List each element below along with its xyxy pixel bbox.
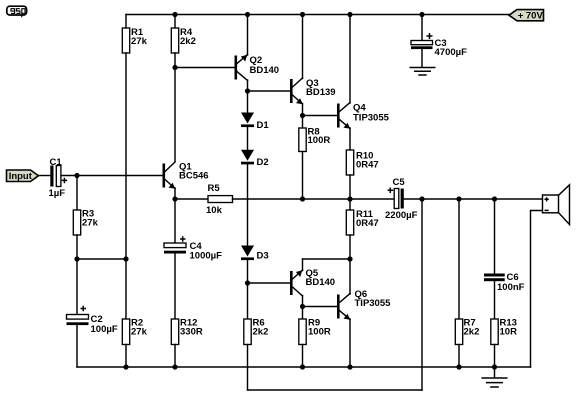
wire feedback riser (421, 199, 423, 390)
svg-text:R5: R5 (208, 183, 221, 194)
resistor R9 (299, 318, 331, 345)
wire R1 to R2 column (125, 53, 127, 319)
svg-text:27k: 27k (82, 218, 99, 229)
wire Q6 emitter (349, 319, 351, 367)
wire R7 bottom lead (458, 345, 460, 368)
wire mid rail C5 to speaker (404, 198, 543, 200)
wire Q2 emitter to top rail (247, 15, 249, 56)
node dot bottom Q6 emitter (347, 364, 352, 369)
wire feedback bottom run (248, 389, 423, 391)
capacitor C4 (164, 236, 222, 261)
svg-text:BC546: BC546 (179, 171, 209, 182)
wire R4 top lead (174, 15, 176, 29)
ground under C3 (410, 68, 436, 76)
node dot Q5 collector / R9 / Q6 base (300, 304, 305, 309)
resistor R3 (73, 209, 98, 236)
wire ground lead (494, 367, 496, 378)
wire Q5 collector (302, 296, 304, 307)
node dot top rail Q4 (347, 12, 352, 17)
wire C4 to R12 (174, 254, 176, 320)
resistor R4 (171, 27, 196, 53)
wire R12 bottom lead (174, 345, 176, 368)
wire Q5 base (248, 282, 291, 284)
node dot bottom R9 (300, 364, 305, 369)
svg-text:27k: 27k (131, 36, 148, 47)
node dot top rail Q2 (245, 12, 250, 17)
wire Q6 base (303, 306, 338, 308)
diode D1 (241, 113, 269, 132)
svg-text:D1: D1 (257, 120, 270, 131)
node dot Q1 emitter / R5 / C4 (172, 196, 177, 201)
wire C2 top lead (76, 259, 78, 315)
resistor R11 (346, 209, 378, 235)
node dot C6 tap (492, 196, 497, 201)
wire R4 bottom to Q1 collector (174, 53, 176, 162)
svg-text:BD140: BD140 (306, 277, 336, 288)
wire feedback link (77, 258, 126, 260)
svg-text:2200µF: 2200µF (385, 210, 418, 221)
resistor R2 (122, 318, 147, 345)
wire R7 top lead (458, 199, 460, 319)
svg-text:2k2: 2k2 (180, 36, 196, 47)
svg-text:2k2: 2k2 (464, 327, 480, 338)
wire Q3 base (248, 90, 291, 92)
svg-text:100R: 100R (308, 327, 331, 338)
wire R10 bottom lead (349, 175, 351, 199)
wire Q4 emitter to R10 (349, 128, 351, 150)
node dot mid rail R10/R11 (347, 196, 352, 201)
wire D1 top lead (247, 91, 249, 113)
ground bottom right (482, 378, 508, 387)
svg-text:10k: 10k (206, 205, 223, 216)
capacitor C2 (67, 306, 118, 335)
wire Q4 base (303, 115, 338, 117)
node dot divider tap (123, 256, 128, 261)
node dot top rail R4 (172, 12, 177, 17)
resistor R8 (299, 127, 331, 152)
diode D3 (241, 246, 269, 262)
wire R2 bottom lead (125, 345, 127, 368)
capacitor C3 (411, 33, 467, 58)
svg-text:BD140: BD140 (250, 65, 280, 76)
node dot R11 / Q5 emitter / Q6 collector (347, 256, 352, 261)
wire Q5 emitter link (303, 258, 351, 260)
svg-text:10R: 10R (500, 327, 518, 338)
wire C6 top lead (494, 199, 496, 274)
svg-text:C1: C1 (50, 157, 63, 168)
wire Q5 emitter riser (302, 259, 304, 271)
wire R3 top lead (76, 176, 78, 211)
wire R9 top lead (302, 307, 304, 320)
svg-text:1000µF: 1000µF (190, 251, 223, 262)
transistor Q1 BC546 (163, 162, 209, 189)
resistor R10 (346, 150, 378, 175)
svg-text:Input: Input (9, 171, 33, 182)
diode D2 (241, 150, 269, 168)
wire C1 to Q1 base (61, 175, 163, 177)
wire R3 bottom lead (76, 235, 78, 259)
svg-text:4700µF: 4700µF (435, 47, 468, 58)
svg-text:D2: D2 (257, 157, 269, 168)
capacitor C5 (385, 177, 418, 221)
svg-text:TIP3055: TIP3055 (353, 113, 390, 124)
wire mid rail R5 to C5 (233, 198, 395, 200)
top rail wire (126, 14, 509, 16)
svg-text:27k: 27k (131, 327, 148, 338)
wire C2 bottom lead (76, 325, 78, 367)
input badge (7, 170, 39, 182)
capacitor C1 (49, 157, 68, 199)
svg-text:100R: 100R (308, 135, 331, 146)
resistor R6 (244, 318, 269, 345)
node dot input/R3 (74, 173, 79, 178)
resistor R1 (122, 27, 147, 53)
svg-text:330R: 330R (180, 327, 203, 338)
wire R11 top lead (349, 199, 351, 210)
wire R9 bottom lead (302, 345, 304, 368)
ESP logo (7, 6, 27, 17)
svg-text:2k2: 2k2 (253, 327, 269, 338)
wire C4 top lead (174, 199, 176, 243)
wire Q3 collector to top rail (302, 15, 304, 79)
resistor R12 (171, 318, 203, 345)
node dot Q3 emitter / R8 / Q4 base (300, 113, 305, 118)
wire Q1 emitter (174, 188, 176, 199)
node dot bottom ground (492, 364, 497, 369)
wire R11 bottom lead (349, 235, 351, 259)
wire Q4 collector to top rail (349, 15, 351, 104)
node dot D3 / Q5 base / R6 (245, 280, 250, 285)
svg-text:0R47: 0R47 (356, 218, 379, 229)
wire Q2 collector (247, 80, 249, 91)
node dot R4/Q2 base (172, 65, 177, 70)
resistor R5 (206, 183, 233, 216)
wire C3 bottom lead (421, 49, 423, 67)
transistor Q2 BD140 (235, 55, 280, 81)
node dot R7 tap (456, 196, 461, 201)
speaker LS1 (543, 185, 570, 225)
node dot top rail C3 (419, 12, 424, 17)
bottom rail wire (77, 366, 531, 368)
node dot R3/C2 (74, 256, 79, 261)
svg-text:100nF: 100nF (497, 282, 525, 293)
node dot bottom R12 (172, 364, 177, 369)
resistor R7 (455, 318, 479, 345)
node dot top rail Q3 (300, 12, 305, 17)
svg-text:BD139: BD139 (306, 87, 336, 98)
wire C3 top lead (421, 15, 423, 41)
svg-text:TIP3055: TIP3055 (355, 298, 392, 309)
wire speaker return (531, 211, 543, 368)
node dot Q2 collector / D1 / Q3 base (245, 88, 250, 93)
capacitor C6 (484, 272, 525, 293)
transistor Q6 TIP3055 (337, 289, 391, 320)
transistor Q3 BD139 (290, 78, 336, 104)
wire R8 top lead (302, 116, 304, 129)
resistor R13 (491, 318, 517, 345)
wire D2 to D3 (247, 164, 249, 245)
transistor Q4 TIP3055 (337, 103, 390, 129)
wire Q6 collector (349, 259, 351, 294)
svg-text:+ 70V: + 70V (518, 11, 544, 22)
wire R13 bottom lead (494, 345, 496, 368)
svg-text:D3: D3 (257, 251, 269, 262)
svg-text:100µF: 100µF (91, 324, 118, 335)
node dot feedback tap (419, 196, 424, 201)
node dot mid rail R8 (300, 196, 305, 201)
svg-text:C5: C5 (393, 177, 406, 188)
wire Q2 base (175, 67, 235, 69)
power badge +70V (509, 10, 544, 22)
wire R6 top lead (247, 283, 249, 319)
svg-text:0R47: 0R47 (356, 160, 379, 171)
node dot bottom R7 (456, 364, 461, 369)
transistor Q5 BD140 (290, 268, 335, 296)
wire mid rail to R5 (175, 198, 208, 200)
wire R6 bottom through rail to feedback run (247, 345, 249, 391)
wire R8 bottom lead (302, 152, 304, 200)
wire Q3 emitter (302, 104, 304, 116)
wire R1 top lead (125, 15, 127, 29)
wire D3 to bias node (247, 260, 249, 283)
node dot bottom R2 (123, 364, 128, 369)
wire D1 to D2 (247, 127, 249, 150)
wire input to C1 (39, 175, 51, 177)
svg-text:1µF: 1µF (49, 188, 66, 199)
wire C6 to R13 (494, 281, 496, 319)
